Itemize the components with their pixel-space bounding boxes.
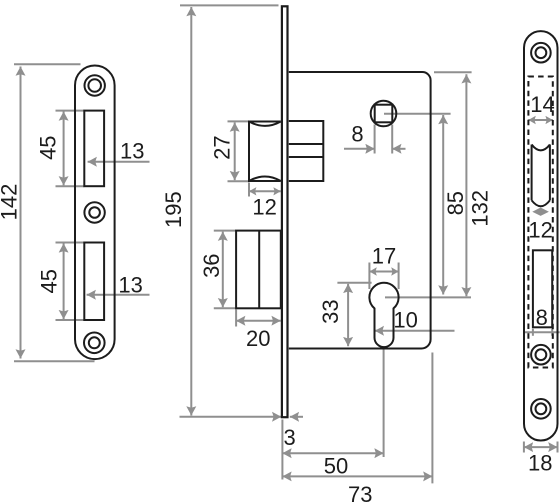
svg-text:8: 8 bbox=[536, 305, 548, 330]
latch bolt front bbox=[532, 145, 550, 207]
dim 36 extensions bbox=[214, 230, 236, 232]
strike plate top screw hole bbox=[85, 75, 105, 95]
strike plate bottom screw hole bbox=[84, 333, 105, 354]
faceplate front outline bbox=[524, 31, 558, 440]
dim 45 lower line bbox=[63, 243, 65, 319]
front middle screw hole bbox=[531, 345, 551, 365]
svg-text:13: 13 bbox=[118, 272, 142, 297]
dim 17 line bbox=[369, 271, 398, 273]
svg-text:17: 17 bbox=[372, 244, 396, 269]
deadbolt front bbox=[533, 250, 552, 327]
svg-text:14: 14 bbox=[530, 92, 554, 117]
strike plate middle screw hole bbox=[84, 202, 104, 222]
svg-text:3: 3 bbox=[283, 425, 295, 450]
svg-text:85: 85 bbox=[443, 191, 468, 215]
dim 17 extensions bbox=[368, 263, 370, 290]
follower centre extension bbox=[384, 113, 451, 115]
dim 27 line bbox=[234, 123, 236, 181]
dim 10 leader bbox=[375, 330, 455, 332]
dim 33 extension bbox=[337, 282, 371, 284]
dim 50 line bbox=[282, 452, 383, 454]
dim 27 extensions bbox=[228, 120, 249, 122]
dim 195 extension top bbox=[180, 4, 279, 6]
faceplate (side) bbox=[282, 6, 288, 417]
lock case outline bbox=[289, 72, 431, 349]
strike plate lower cutout bbox=[84, 243, 104, 321]
strike plate upper cutout bbox=[84, 111, 104, 187]
dim 45 upper line bbox=[63, 112, 65, 186]
dim 12 front diamond arrows bbox=[532, 208, 549, 216]
dim 13 upper leader bbox=[88, 161, 150, 163]
svg-text:36: 36 bbox=[199, 253, 224, 277]
dim 18 line bbox=[524, 446, 558, 448]
svg-text:33: 33 bbox=[318, 299, 343, 323]
cylinder centre extension bbox=[385, 296, 471, 298]
dim 33 line bbox=[347, 284, 349, 346]
case top extension bbox=[434, 71, 472, 73]
dim 3 left arrow / 195 bottom extension bbox=[180, 416, 282, 418]
dim 142 extension top bbox=[14, 63, 81, 65]
svg-text:12: 12 bbox=[252, 195, 276, 220]
dim 142 extension bottom bbox=[14, 360, 95, 362]
follower circle bbox=[371, 101, 397, 127]
dim 13 lower leader bbox=[87, 294, 150, 296]
svg-text:10: 10 bbox=[393, 307, 417, 332]
faceplate bottom extension bbox=[281, 420, 283, 480]
dim 8 follower extensions bbox=[374, 125, 376, 154]
dim 8 follower left arrow bbox=[344, 148, 375, 150]
latch bolt tail bbox=[289, 121, 324, 181]
svg-text:45: 45 bbox=[36, 135, 61, 159]
dim 195 line bbox=[190, 7, 192, 416]
euro cylinder hole bbox=[369, 283, 398, 347]
dim 12 line bbox=[249, 190, 281, 192]
svg-text:73: 73 bbox=[348, 482, 372, 504]
dim 73 line bbox=[282, 475, 432, 477]
dim 3 right arrow bbox=[290, 416, 303, 418]
svg-text:18: 18 bbox=[528, 451, 552, 476]
dim 20 line bbox=[236, 320, 281, 322]
svg-text:132: 132 bbox=[467, 190, 492, 227]
dim 12 extension bbox=[248, 183, 250, 197]
dim 85 line bbox=[442, 115, 444, 295]
case hidden outline (dashed) bbox=[528, 77, 552, 368]
front bottom screw hole bbox=[531, 399, 551, 419]
svg-text:50: 50 bbox=[324, 454, 348, 479]
svg-text:45: 45 bbox=[37, 269, 62, 293]
follower square bbox=[375, 105, 393, 123]
dim 14 line bbox=[528, 119, 552, 121]
front top screw hole bbox=[531, 43, 551, 63]
dim 8 follower right arrow bbox=[392, 148, 405, 150]
svg-text:12: 12 bbox=[528, 217, 552, 242]
svg-text:142: 142 bbox=[0, 184, 22, 221]
dim 36 line bbox=[222, 232, 224, 308]
latch bolt head bbox=[249, 122, 281, 182]
svg-text:8: 8 bbox=[351, 122, 363, 147]
dim 45 upper extensions bbox=[56, 110, 85, 112]
dim 45 lower extensions bbox=[56, 242, 85, 244]
dim 132 line bbox=[465, 74, 467, 296]
svg-text:27: 27 bbox=[209, 135, 234, 159]
cylinder centreline extension bbox=[383, 348, 385, 457]
dim 20 extension bbox=[235, 310, 237, 327]
dim 142 line bbox=[20, 67, 22, 359]
svg-text:20: 20 bbox=[246, 326, 270, 351]
svg-text:13: 13 bbox=[120, 139, 144, 164]
case corner extension bbox=[431, 353, 433, 484]
deadbolt bbox=[236, 231, 281, 309]
dim 8 front line bbox=[525, 331, 560, 333]
svg-text:195: 195 bbox=[161, 191, 186, 228]
strike plate outline bbox=[75, 66, 115, 360]
dim 18 extensions bbox=[523, 442, 525, 453]
